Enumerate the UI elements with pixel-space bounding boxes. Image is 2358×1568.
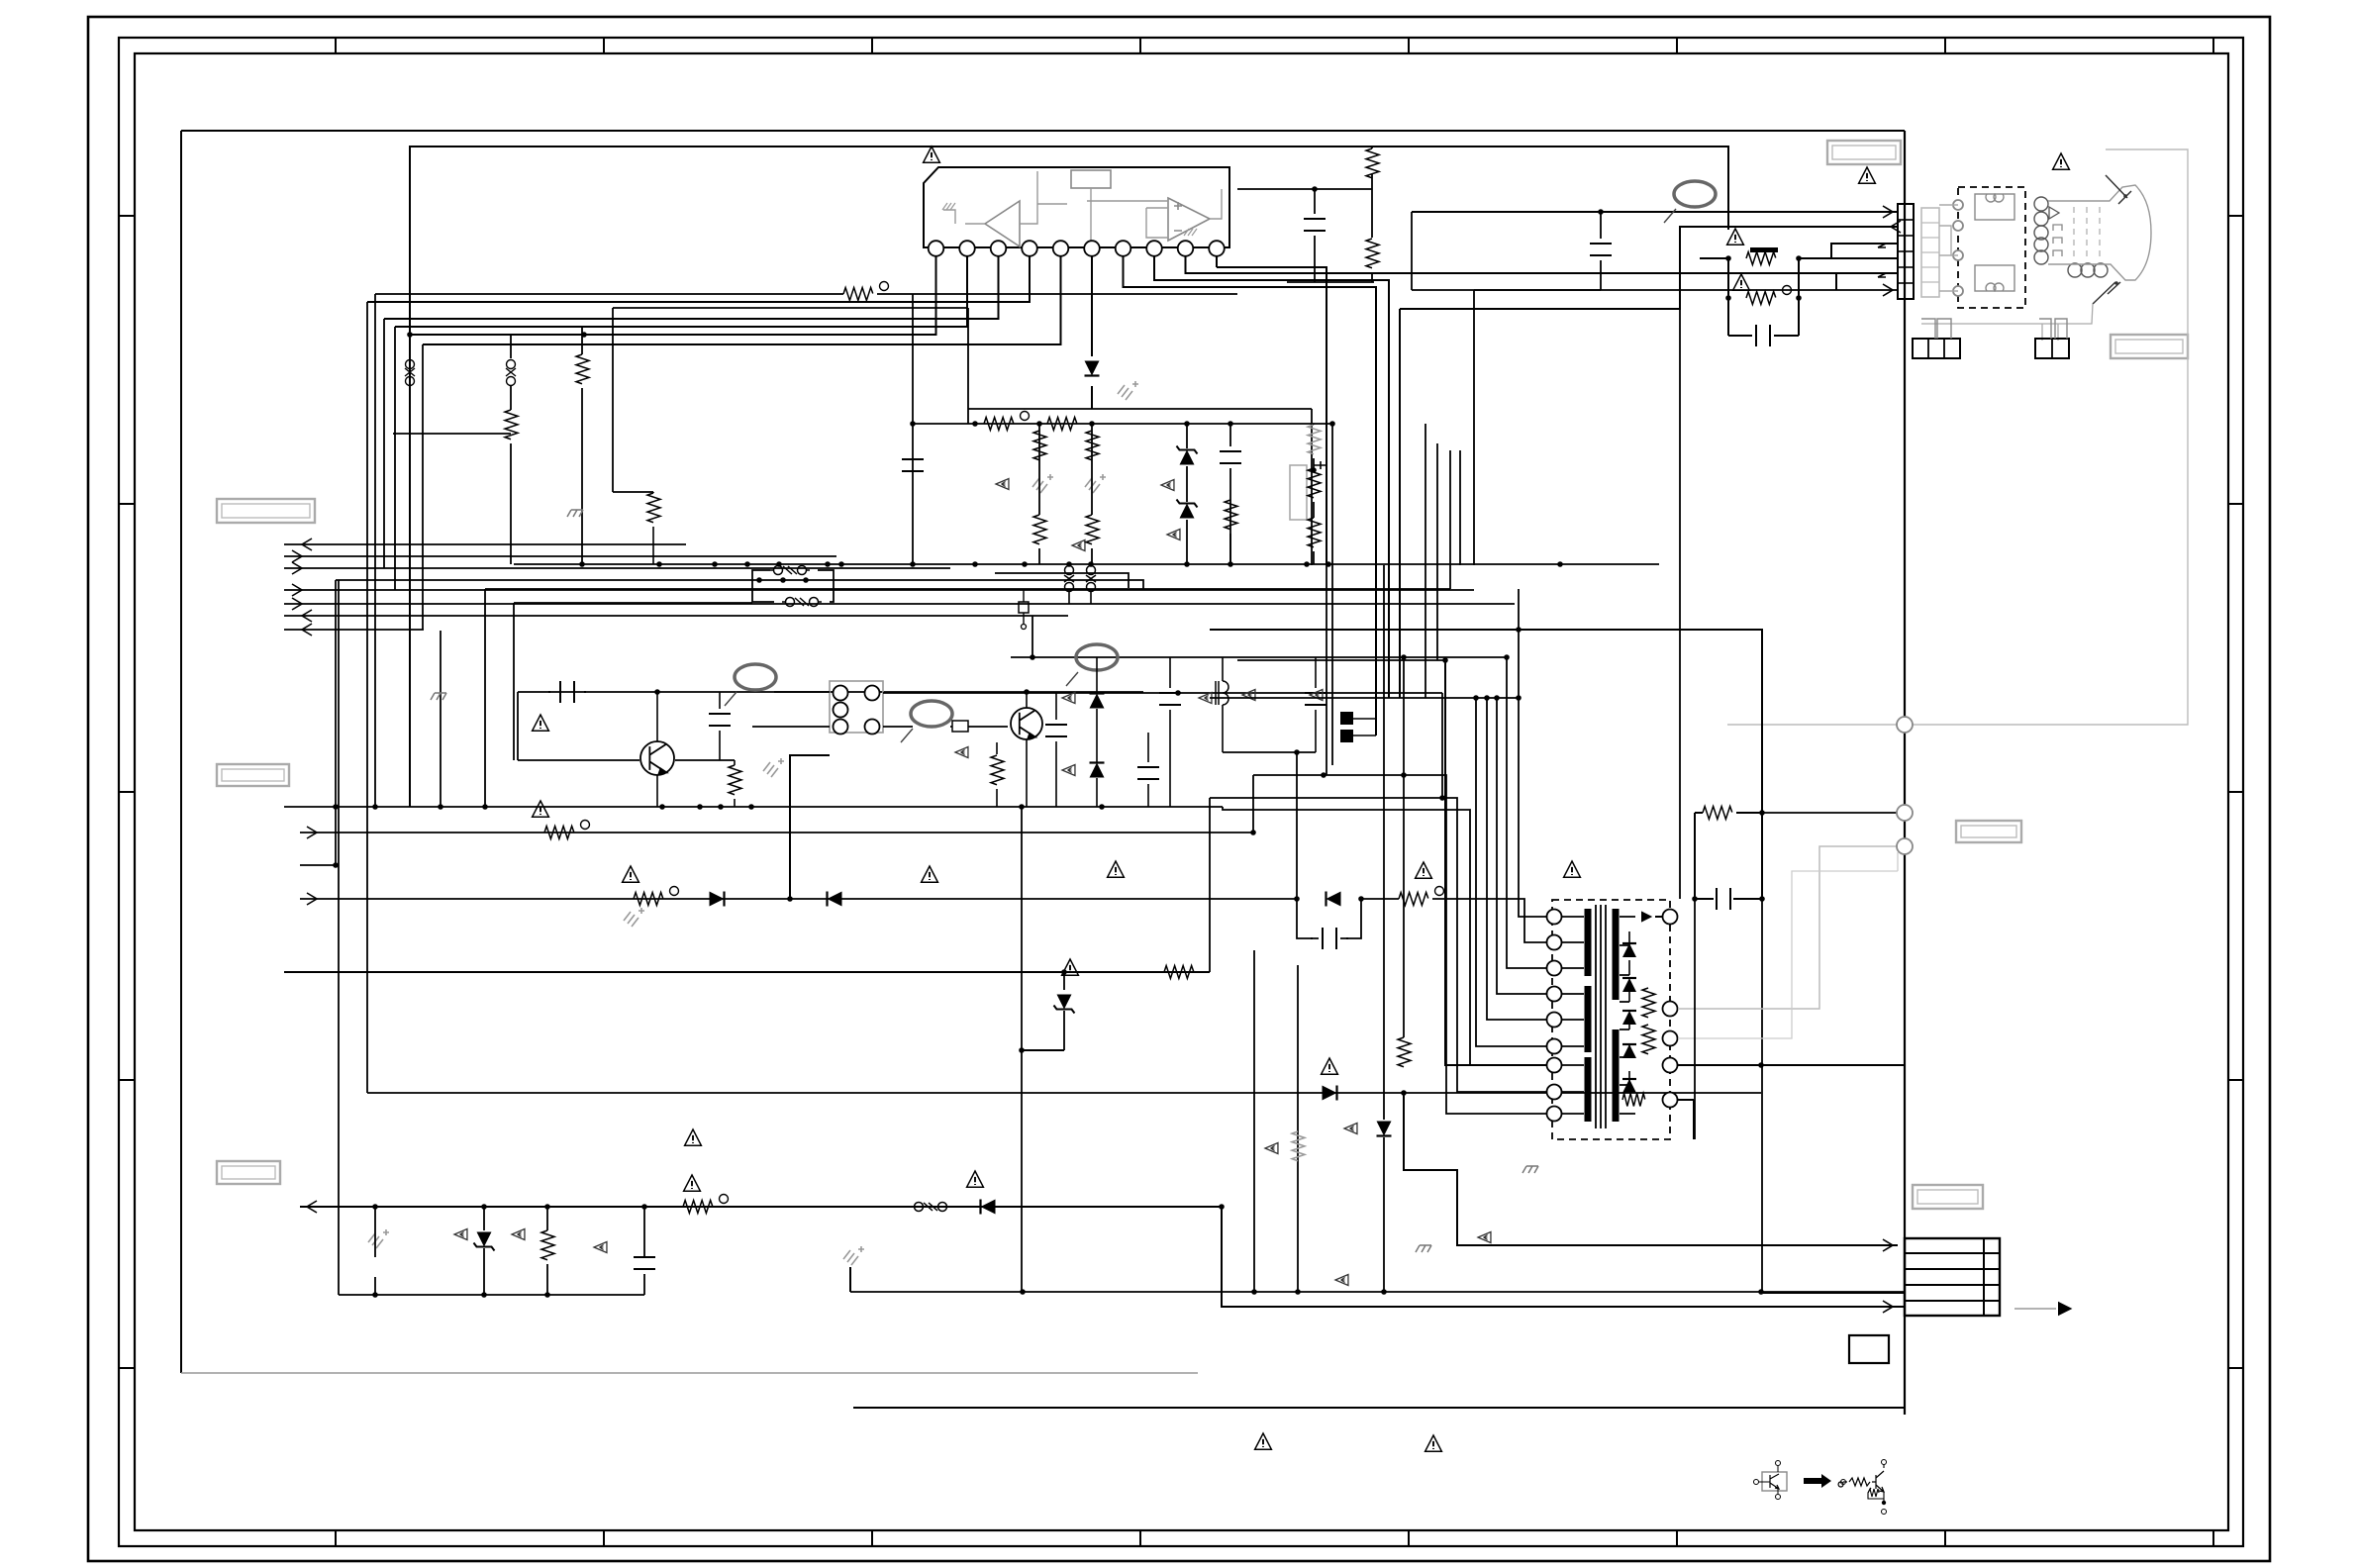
border tick bottom 3 (871, 1530, 873, 1546)
degauss pin (1953, 250, 1963, 260)
wire (675, 759, 735, 761)
capacitor C3 (1744, 325, 1782, 346)
connector CN1 cell divider 4 (1898, 266, 1914, 268)
border tick top 8 (2212, 38, 2214, 53)
warning symbol (1733, 274, 1750, 290)
T1 secondary pin 5 (1663, 1093, 1678, 1108)
ground bus y815 (284, 806, 1223, 808)
resistor R31 (991, 755, 1004, 785)
junction (1442, 657, 1448, 663)
transformer feed wire 5 (1487, 698, 1547, 1020)
wire (510, 386, 512, 410)
junction (1036, 421, 1042, 427)
junction (1311, 467, 1317, 473)
junction on y1219 (481, 1204, 487, 1210)
capacitor C12 (1159, 693, 1181, 705)
wire (1147, 784, 1149, 807)
CRT gun electrodes (2053, 225, 2062, 256)
spark gap SG2 (1086, 566, 1096, 592)
wire x1266 (1252, 775, 1254, 833)
T1 primary pin 3 (1547, 961, 1562, 976)
junction on bus y815 (1019, 804, 1025, 810)
wire (1068, 592, 1070, 604)
note symbol (1478, 1232, 1491, 1243)
border tick bottom 7 (1944, 1530, 1946, 1546)
wire (483, 1207, 485, 1230)
resistor R21 (541, 1230, 554, 1260)
equivalent circuit transistor (1872, 1471, 1884, 1492)
label box near CN4 (1913, 1185, 1983, 1209)
inner block border (410, 147, 1728, 807)
wire to CN1 pin3 (1799, 244, 1898, 258)
bus vertical x1325 (1311, 409, 1313, 565)
wire (1096, 778, 1098, 807)
capacitor C11 (1045, 725, 1067, 736)
line filter pin (834, 703, 848, 718)
junction on ground bus (1304, 561, 1310, 567)
heater wire gray 1 (1678, 846, 1898, 1009)
junction (1796, 295, 1802, 301)
wire into CN4 row1 (1404, 1093, 1898, 1245)
zener diode ZD3 (1054, 995, 1075, 1014)
degauss pin (1953, 286, 1963, 296)
wire (912, 424, 914, 564)
wire (1055, 741, 1057, 807)
snubber cap loop (1297, 899, 1361, 938)
spark gap SG1 (1064, 566, 1074, 592)
wire (1371, 147, 1373, 148)
warning symbol (1108, 861, 1125, 877)
border tick right 2 (2228, 503, 2243, 505)
optocoupler sensor pad 1 (1340, 712, 1353, 725)
U1 internal ground (942, 203, 955, 210)
fusible resistor network frame (1728, 258, 1799, 336)
ground (843, 1246, 864, 1265)
bus vertical x427 (422, 344, 424, 630)
schematic block lower bus (853, 1407, 1905, 1409)
junction on bus y815 (697, 804, 703, 810)
bus vertical x1267 (1253, 950, 1255, 1292)
connector shell divider 2 (1921, 237, 1939, 239)
T1 secondary output wires (1655, 917, 1905, 1139)
CRT ground return (gray) (1727, 149, 2188, 725)
wire x1310 (1296, 752, 1298, 899)
junction (1759, 896, 1765, 902)
junction on bus y815 (748, 804, 754, 810)
line filter pin (834, 686, 848, 701)
CRT neck gray wire (1921, 304, 2093, 341)
port arrow 3 (292, 562, 302, 574)
bus wire y586 (336, 580, 1143, 589)
wire (1411, 212, 1413, 290)
junction on y1305 (1295, 1289, 1301, 1295)
bus wire y297 (375, 293, 843, 295)
transformer feed wire 7 (1519, 589, 1547, 917)
capacitor C5 (1220, 451, 1241, 463)
wire (1371, 174, 1373, 238)
test point TP1 (1019, 602, 1029, 613)
U1 pin 10 (1209, 241, 1225, 256)
wire x1460 down (1445, 660, 1547, 1065)
T1 secondary pin 2 (1663, 1002, 1678, 1017)
T1 primary connection stubs (1562, 917, 1584, 1114)
U1 internal ground 2 (1184, 229, 1197, 236)
note symbol (1265, 1143, 1278, 1154)
CRT internal dashed lines (2074, 207, 2100, 259)
port arrow into CN1 pin6 (1883, 284, 1893, 296)
warning symbol (922, 866, 938, 882)
U1 pin 3 (991, 241, 1007, 256)
junction (910, 421, 916, 427)
junction on y1219 (544, 1204, 550, 1210)
wire Q1 collector (656, 692, 658, 741)
bus vertical x1440 (1425, 424, 1426, 698)
chassis ground (567, 510, 583, 517)
label box left 3 (217, 1161, 280, 1184)
T1 primary pin 2 (1547, 935, 1562, 950)
bus vertical x1418 (1403, 657, 1405, 1037)
wire (1222, 705, 1224, 752)
rectifier diode D7 (1622, 943, 1636, 957)
wire from D3 up to filter (790, 755, 830, 899)
T1 secondary riser wires (1628, 931, 1630, 1085)
junction on bus y815 (372, 804, 378, 810)
bus vertical x1457 (1441, 693, 1443, 798)
junction (1758, 1062, 1764, 1068)
thermistor tap (1314, 461, 1327, 469)
junction (372, 1292, 378, 1298)
resistor R25 (1642, 988, 1655, 1018)
choke coil L1 (1223, 681, 1228, 705)
equivalent circuit junction (1882, 1501, 1886, 1505)
bus vertical x1032 (1021, 807, 1023, 1292)
junction (1219, 1204, 1225, 1210)
connector CN1 cell divider 2 (1898, 235, 1914, 237)
wire (510, 335, 512, 358)
wire (1169, 710, 1171, 807)
connector CN1 cell divider 5 (1898, 282, 1914, 284)
note symbol (1167, 530, 1180, 540)
CRT socket wedge (2049, 207, 2059, 219)
bus vertical x1340 lower (1326, 565, 1327, 775)
junction on y1305 (1020, 1289, 1026, 1295)
degauss posistor dashed box (1958, 187, 2025, 308)
junction on y1219 (641, 1204, 647, 1210)
wire Q2 collector (1026, 692, 1028, 708)
gnd riser at bus left end (849, 1267, 851, 1292)
transformer feed wire 4 (1476, 698, 1547, 1046)
wire (643, 1274, 645, 1295)
connector CN1 shell (gray) (1921, 208, 1939, 297)
T1 primary pin 5 (1547, 1013, 1562, 1028)
wire (1186, 520, 1188, 564)
junction (1175, 690, 1181, 696)
resistor R13 (1308, 468, 1321, 498)
border tick top 7 (1944, 38, 1946, 53)
border tick left 5 (119, 1367, 135, 1369)
junction (803, 577, 809, 583)
junction on y1305 (1381, 1289, 1387, 1295)
chassis ground (1416, 1245, 1431, 1252)
sub-box around driver (514, 603, 752, 760)
rectifier diode D10 (1622, 1044, 1636, 1058)
bus vertical x490 (484, 589, 486, 807)
capacitor C14 (1305, 693, 1326, 705)
connector shell divider 5 (1921, 281, 1939, 283)
junction (1061, 969, 1067, 975)
port wire y841 (300, 832, 1253, 833)
bus vertical x379 (374, 294, 376, 807)
U1 pin10 wire (1217, 256, 1326, 565)
note symbol (955, 747, 968, 758)
wire x1780 to CN4 row (1762, 1292, 1905, 1294)
schematic block border right (1904, 131, 1906, 1415)
junction (1504, 654, 1510, 660)
wire (374, 1277, 376, 1295)
bus vertical x922 (912, 294, 914, 424)
jumper link J2 (506, 360, 516, 386)
wire y705 (1210, 697, 1519, 699)
port arrow 1 (302, 539, 312, 550)
junction on ground bus (712, 561, 718, 567)
wire (1055, 692, 1057, 720)
T1 primary pin 9 (1547, 1107, 1562, 1122)
T1 primary pin 7 (1547, 1058, 1562, 1073)
junction on ground bus (744, 561, 750, 567)
connector CN4 divider (1905, 1300, 2000, 1302)
junction (1692, 896, 1698, 902)
resistor R17 (634, 893, 663, 906)
border tick left 2 (119, 503, 135, 505)
CRT base pins row (2068, 263, 2082, 277)
wire (1383, 1137, 1385, 1292)
port arrow 4 (292, 584, 302, 596)
note symbol (996, 479, 1009, 490)
sub ground rail (339, 1294, 644, 1296)
bus wire y297 cont (877, 293, 1237, 295)
connector shell divider 3 (1921, 251, 1939, 253)
junction (654, 689, 660, 695)
bus vertical x1346 (1331, 424, 1333, 765)
border tick left 1 (119, 215, 135, 217)
digital transistor symbol (1770, 1474, 1779, 1489)
connector CN1 cell divider 1 (1898, 219, 1914, 221)
connector CN4 divider (1905, 1268, 2000, 1270)
warning symbol (1322, 1058, 1338, 1074)
resistor R10 (1086, 515, 1099, 544)
resistor R20 (683, 1201, 713, 1214)
bus vertical x1222 (1209, 798, 1211, 972)
resistor R8 (1086, 431, 1099, 460)
transistor Q2 (1011, 708, 1042, 739)
U1 pin 6 (1084, 241, 1100, 256)
wire (1038, 424, 1040, 515)
schematic block border top (181, 130, 1905, 132)
note symbol (1242, 690, 1255, 701)
T1 secondary pin 4 (1663, 1058, 1678, 1073)
U1 pin 8 (1146, 241, 1162, 256)
resistor R5 (984, 418, 1014, 431)
T1 primary winding bars (1585, 909, 1592, 1122)
junction on ground bus (910, 561, 916, 567)
note symbol (512, 1229, 525, 1240)
junction (780, 577, 786, 583)
warning symbol (967, 1171, 984, 1187)
junction (1294, 896, 1300, 902)
resistor R14 (1308, 518, 1321, 547)
diode D4 (1323, 1086, 1337, 1101)
wire (734, 760, 736, 765)
T1 secondary pin 3 (1663, 1031, 1678, 1046)
diode D5 (981, 1200, 996, 1215)
U1 pin3 wire (384, 256, 999, 319)
wire filter to snubber (883, 692, 1442, 694)
wire zener to bus (1022, 1049, 1064, 1051)
wire (546, 1207, 548, 1230)
warning symbol (684, 1175, 701, 1191)
junction (1516, 695, 1522, 701)
junction (481, 1292, 487, 1298)
port arrow (307, 1201, 317, 1213)
wire y338 (410, 334, 584, 336)
wire y768 (518, 759, 639, 761)
diode D1 (1085, 361, 1100, 376)
note symbol (1161, 480, 1174, 491)
wire (1600, 212, 1602, 239)
bus vertical x399 (394, 327, 396, 590)
wire y982 (284, 971, 1210, 973)
port arrow (307, 893, 317, 905)
wire (510, 443, 512, 564)
line filter pin (865, 720, 880, 735)
junction (1030, 654, 1035, 660)
border tick top 1 (335, 38, 337, 53)
U1 pin 1 (929, 241, 944, 256)
wire (581, 327, 583, 354)
warning symbol (685, 1129, 702, 1145)
junction on y1305 (1251, 1289, 1257, 1295)
border tick top 6 (1676, 38, 1678, 53)
transformer T1 dashed box (1552, 900, 1670, 1139)
tick on CN1 pin5 (1878, 273, 1886, 277)
wire (1091, 548, 1093, 564)
bus vertical x1465 (1449, 450, 1451, 589)
border tick right 3 (2228, 791, 2243, 793)
wire (1222, 657, 1224, 681)
junction (333, 862, 339, 868)
resistor R9 (1033, 515, 1046, 544)
junction (544, 1292, 550, 1298)
wire (1287, 281, 1374, 283)
wire (996, 789, 998, 807)
T1 primary pin 6 (1547, 1039, 1562, 1054)
T1 secondary taps (1620, 917, 1635, 1114)
bus vertical x1780 upper (1761, 630, 1763, 813)
ground (368, 1229, 389, 1248)
note symbol (1199, 693, 1212, 704)
wire (1371, 273, 1373, 282)
degauss wiring (gray) (1939, 205, 1958, 291)
connector CN2 body (1913, 339, 1960, 358)
wire (1186, 424, 1188, 448)
note symbol (1062, 765, 1075, 776)
U1 pin 5 (1053, 241, 1069, 256)
transformer feed wire 1 (1253, 775, 1547, 1114)
junction (1598, 209, 1604, 215)
wire (1038, 548, 1040, 564)
warning symbol near CRT (2053, 153, 2070, 169)
note symbol (594, 1242, 607, 1253)
warning symbol bottom center (1255, 1433, 1272, 1449)
ground (1085, 474, 1106, 493)
resistor R23 (1399, 893, 1428, 906)
capacitor C10 (1705, 888, 1742, 910)
bus wire y428 (913, 423, 1332, 425)
junction on bus y815 (718, 804, 724, 810)
junction (1321, 772, 1326, 778)
node circle right edge 1 (1897, 717, 1913, 733)
wire y438 (393, 433, 511, 435)
border tick bottom 4 (1139, 1530, 1141, 1546)
junction (1725, 295, 1731, 301)
T1 primary pin 1 (1547, 910, 1562, 925)
warning symbol (1416, 862, 1432, 878)
junction on bus y815 (1099, 804, 1105, 810)
wire (581, 388, 583, 564)
wire (1314, 236, 1316, 282)
wire x1712 (1694, 899, 1696, 1139)
note symbol (1072, 540, 1085, 551)
rectifier diode D8 (1622, 978, 1636, 992)
wire (1700, 257, 1728, 259)
junction on ground bus (1326, 561, 1331, 567)
schematic block border left (180, 131, 182, 1373)
digital transistor package outline (1762, 1472, 1787, 1491)
label box left 2 (217, 764, 289, 786)
jumper link J1 (405, 360, 415, 386)
fusible resistor FR1 (1746, 252, 1776, 265)
port arrow into CN1 pin1 (1883, 206, 1893, 218)
wire (719, 692, 721, 709)
border tick top 4 (1139, 38, 1141, 53)
wire Q1 emitter (656, 775, 658, 807)
ground (1032, 474, 1053, 493)
wire y908 right (1361, 899, 1547, 942)
wire (1091, 424, 1093, 515)
junction on y1219 (372, 1204, 378, 1210)
resistor R7 (1033, 431, 1046, 460)
wire (1229, 424, 1231, 446)
T1 core (1596, 905, 1606, 1128)
wire (652, 492, 654, 493)
wire (967, 409, 969, 424)
label box left 1 (217, 499, 315, 523)
ground (624, 908, 644, 927)
border tick right 4 (2228, 1079, 2243, 1081)
warning symbol near U1 (924, 147, 940, 162)
resistor R29 (576, 354, 589, 384)
op-amp A2 (inside U1) (1168, 198, 1210, 241)
capacitor C1 (1304, 219, 1326, 231)
wire (734, 799, 736, 807)
U1 pin6 wire (1091, 256, 1093, 409)
wire to CN1 pin4 (1799, 257, 1898, 259)
note symbol (1062, 693, 1075, 704)
op-amp IC U1 outline (924, 167, 1229, 247)
port wire 2 (284, 555, 836, 557)
U1 pin4 wire (367, 256, 1030, 302)
degauss pin (1953, 200, 1963, 210)
